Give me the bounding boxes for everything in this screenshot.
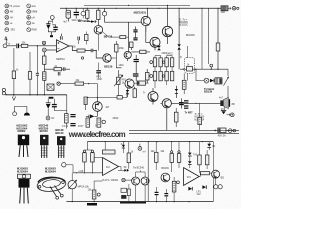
wire [62, 68, 71, 70]
input level arrow [6, 39, 7, 43]
diode D9 [124, 169, 126, 172]
svg-text:0R22: 0R22 [167, 53, 173, 56]
svg-text:TL071 / LM301: TL071 / LM301 [102, 179, 119, 182]
capacitor C15 [70, 123, 75, 124]
resistor R46 [198, 155, 202, 165]
package P4 legs [20, 188, 29, 204]
legend triangle symbol [5, 37, 7, 40]
node circle E [57, 82, 60, 85]
wires pair [136, 170, 146, 201]
zener Z4 [188, 153, 192, 156]
legend symbol circle 4 [5, 21, 9, 25]
wire [146, 26, 155, 51]
bottom rail heavy segment [87, 203, 97, 206]
wire [46, 49, 56, 51]
output inductor L1 [221, 6, 228, 11]
wire opamp3 out [199, 173, 212, 176]
test point [210, 64, 213, 67]
cap C17 [155, 192, 159, 193]
svg-text:uH: uH [32, 16, 35, 19]
package P4 TO-220 tab [18, 174, 31, 178]
trimmer RV2 [187, 67, 193, 72]
svg-text:4n7: 4n7 [219, 97, 224, 100]
ground pad [50, 35, 53, 37]
svg-text:7V5: 7V5 [193, 153, 198, 156]
resistor R22 [170, 71, 173, 81]
resistor R5 [86, 10, 89, 18]
svg-text:BC546: BC546 [40, 129, 49, 133]
svg-text:0 1=1: 0 1=1 [62, 125, 69, 128]
LEGEND [5, 4, 38, 39]
legend symbol circle 10 [27, 28, 31, 32]
node dots [13, 94, 14, 95]
package P5 pins [50, 186, 61, 197]
misc tiny labels [63, 20, 173, 172]
package P4 body [19, 179, 30, 188]
wire [96, 98, 98, 117]
capacitor C3 [91, 49, 93, 52]
resistor R26 [43, 72, 46, 81]
resistor R5b [85, 34, 88, 40]
phone terminal [13, 112, 17, 116]
svg-text:Tr 4R7: Tr 4R7 [185, 110, 193, 114]
output node wire [171, 102, 220, 104]
resistor R6 [97, 10, 100, 19]
transistor Q8 [162, 99, 171, 108]
legend symbol circle 1 [5, 4, 9, 8]
lamp circles [214, 185, 218, 189]
capacitor C5z [53, 27, 57, 28]
resistor R3 [77, 49, 85, 52]
op-amp output wire [69, 46, 77, 51]
fuse F1 [214, 130, 216, 132]
zener terminal circle [50, 16, 54, 20]
terminal (+)45V [230, 113, 234, 117]
resistor R16 [159, 58, 162, 67]
center vertical [147, 142, 149, 202]
node circle C [46, 116, 50, 120]
earpiece [24, 113, 30, 116]
bridge box [47, 84, 54, 90]
resistor R19 [153, 71, 156, 81]
wire [227, 69, 229, 101]
svg-text:IC3: IC3 [187, 176, 191, 179]
svg-text:10R: 10R [221, 11, 226, 14]
resistor R12 [115, 44, 118, 52]
capacitor C13 [52, 104, 57, 105]
op-amp IC2 [103, 158, 119, 176]
resistor R32h [75, 82, 84, 85]
resistor R25 [28, 72, 31, 80]
node circle F [81, 57, 83, 59]
PACKAGES [17, 124, 67, 204]
svg-text:ref: ref [143, 150, 146, 153]
bottom rail thick segment 2 [120, 201, 146, 203]
svg-text:IC2: IC2 [106, 166, 110, 169]
ic2 out wire [119, 167, 122, 171]
INPUT ROW [3, 16, 103, 71]
resistor R40 [83, 153, 87, 162]
resistor R44 [170, 154, 174, 163]
wire y97.5 [86, 97, 117, 99]
capacitor C12 [36, 73, 39, 75]
resistor R2 [43, 56, 47, 64]
capacitor C7 [75, 8, 77, 12]
wire [148, 88, 167, 130]
transistor Q13 [212, 170, 220, 178]
ground symbol [12, 97, 15, 101]
wires zener cluster [48, 21, 55, 35]
transistor Q5 [124, 51, 131, 58]
resistor R24 [12, 71, 15, 79]
resistor R11h [140, 50, 146, 53]
trimmer RV1 [117, 77, 121, 84]
op-amp IC3 [184, 168, 200, 186]
divider line 1 [129, 129, 239, 131]
svg-text:10k: 10k [88, 188, 93, 191]
package P5 mounting holes [38, 186, 41, 189]
terminal (-)45V [227, 129, 228, 131]
node circle X1 [138, 147, 142, 151]
diode D11 [207, 144, 211, 147]
wire [85, 51, 103, 59]
svg-text:R: R [180, 56, 182, 59]
wire [167, 5, 169, 44]
svg-text:BD139: BD139 [204, 89, 213, 93]
terminal 0V a [2, 88, 5, 91]
svg-text:NE5534: NE5534 [56, 58, 65, 61]
svg-text:BD249C: BD249C [186, 34, 195, 37]
capacitor C8b [133, 37, 137, 38]
svg-text:SF: SF [124, 166, 128, 169]
wire vertical B [208, 8, 210, 64]
package P3 body [57, 136, 66, 145]
bias row wire [180, 68, 228, 70]
legend symbol circle 8 [27, 15, 31, 19]
wires [84, 162, 92, 173]
node [37, 45, 38, 46]
terminal circle [62, 163, 66, 167]
wire [84, 84, 98, 98]
transistor Q12 [161, 173, 170, 182]
capacitor C8 [133, 29, 137, 30]
pot RV3 [68, 181, 76, 189]
LOWER SECTION [62, 141, 225, 206]
package P2 TO-126 body [40, 135, 49, 145]
resistor R41 [91, 153, 95, 162]
svg-text:R R7: R R7 [78, 125, 84, 128]
resistor R10 [130, 42, 133, 48]
meter circle [102, 12, 106, 16]
wire [60, 83, 75, 85]
package P1 TO-220 body [18, 135, 29, 146]
wire [103, 32, 129, 37]
box small [121, 188, 127, 192]
transistor Q9 [93, 102, 103, 112]
wire [7, 45, 16, 47]
right vertical [213, 142, 215, 202]
relay box [137, 81, 145, 85]
resistor R31 [97, 118, 101, 127]
resistor R33 [182, 80, 186, 89]
MID LEFT [2, 46, 127, 129]
resistor R8 [216, 43, 220, 51]
speaker LS1 [220, 100, 223, 106]
diode D10 [127, 169, 129, 172]
electrolytic C6 can [65, 8, 67, 10]
svg-text:MJ15004: MJ15004 [17, 169, 28, 173]
cap C18 [164, 193, 168, 194]
legend symbol circle 2 [5, 10, 9, 14]
resistor R47 [205, 155, 209, 165]
capacitor C9b [96, 70, 101, 71]
svg-text:100K: 100K [97, 78, 103, 81]
svg-text:wire: wire [32, 5, 37, 8]
svg-text:10k: 10k [72, 46, 77, 49]
svg-text:BD: BD [221, 176, 225, 179]
diode D12 [188, 187, 192, 191]
svg-text:www.elecfree.com: www.elecfree.com [68, 130, 126, 139]
svg-text:4k7: 4k7 [105, 106, 110, 109]
bottom rail [66, 201, 213, 203]
diode D7 [210, 79, 214, 83]
zener Z1 [177, 44, 180, 47]
resistor R20 [159, 71, 162, 81]
svg-text:45V 3A: 45V 3A [218, 135, 226, 138]
cap C16 [184, 100, 188, 101]
left sense wire [73, 172, 103, 174]
resistor R28h [117, 96, 122, 99]
thermal trim dashed box [185, 58, 195, 74]
node circle A [42, 41, 45, 44]
diode D13 [202, 185, 206, 189]
op-amp supply capacitor C2v [61, 36, 63, 40]
ground under speaker [224, 107, 226, 111]
diode D5 [46, 102, 51, 104]
resistor R27 [65, 114, 69, 123]
feedback row: wire [44, 68, 54, 70]
resistor R34 [198, 117, 202, 124]
wire base row y22 [105, 18, 129, 52]
svg-text:3R3: 3R3 [10, 29, 15, 32]
MAIN AMP [96, 41, 220, 130]
svg-text:MJ802: MJ802 [18, 129, 26, 133]
transistor Q3 [162, 26, 172, 36]
resistor R14 [145, 73, 149, 81]
0V rail [6, 94, 67, 96]
scan noise overlay [0, 0, 241, 209]
resistor R42 [127, 153, 131, 163]
zener Z3 [157, 46, 161, 48]
svg-text:0R68: 0R68 [32, 11, 38, 14]
transistor Q1 [94, 26, 103, 35]
rail drop left [84, 142, 92, 150]
transistor Q10 [132, 177, 140, 185]
resistor R29 [84, 97, 87, 105]
divider line 2 [129, 132, 239, 134]
zener Z2 [126, 90, 130, 92]
emitter resistor bank: resistor R15 [153, 58, 156, 67]
resistor R30 [86, 118, 90, 127]
svg-text:1w: 1w [32, 22, 35, 25]
svg-text:-W-: -W- [10, 16, 14, 19]
node circle B [42, 48, 46, 52]
svg-text:n/off: n/off [79, 170, 84, 173]
offset network box [102, 150, 115, 154]
svg-text:BD250C: BD250C [179, 24, 188, 27]
transistor Q2 [141, 16, 150, 25]
output terminal (+) [228, 7, 231, 10]
wire [128, 48, 150, 61]
transistor Q6 [125, 79, 134, 88]
legend symbol circle 6 [27, 4, 31, 8]
diode D6 [90, 115, 94, 119]
svg-text:1k: 1k [131, 151, 134, 154]
package P2 legs [42, 145, 47, 158]
resistor R18 [170, 58, 173, 67]
svg-text:Tr: Tr [143, 91, 145, 94]
wire [19, 45, 21, 47]
resistor R7h [120, 36, 126, 39]
terminal 0V b [2, 92, 5, 95]
input wire row y170.3 [118, 169, 124, 171]
legend symbol circle 9 [27, 21, 31, 25]
svg-text:4u7: 4u7 [63, 20, 68, 23]
svg-text:MJE: MJE [119, 47, 124, 50]
svg-text:BD139: BD139 [104, 65, 113, 69]
svg-text:in: in [8, 43, 11, 46]
svg-text:1k: 1k [16, 68, 19, 71]
svg-text:0R22: 0R22 [113, 117, 119, 120]
svg-text:100n: 100n [119, 64, 125, 67]
resistor R21 [165, 71, 168, 81]
svg-text:BD140: BD140 [55, 131, 64, 135]
legend symbol circle 5 [5, 28, 9, 32]
transistor Q7 [148, 92, 158, 102]
package P1 legs [19, 145, 28, 157]
WATERMARK [68, 130, 126, 139]
transistor Q11 [141, 177, 149, 185]
zener D8 [122, 145, 125, 148]
svg-text:12V: 12V [196, 193, 201, 196]
svg-text:MJE15031: MJE15031 [134, 10, 147, 14]
IC2 + input network: resistor R50 [92, 190, 96, 199]
wire [129, 8, 148, 37]
capacitor C14 [70, 114, 75, 115]
rail +V upper [84, 4, 190, 6]
resistor R45 [177, 154, 181, 163]
package P3 legs [59, 145, 64, 158]
bank top ties [155, 56, 172, 89]
capacitor C11 [179, 102, 184, 103]
diode D4 [175, 89, 179, 91]
wire [178, 8, 180, 69]
wires [48, 95, 67, 116]
rail +V main [60, 7, 221, 9]
svg-text:1N: 1N [51, 117, 54, 120]
node circle X2 [122, 178, 125, 181]
wire vertical A [201, 8, 203, 69]
svg-text:SET BIAS: SET BIAS [78, 19, 90, 23]
top rail [87, 141, 213, 143]
TOP RAILS [60, 5, 239, 69]
transistor Q4 [150, 37, 160, 47]
resistor R1 [21, 44, 28, 47]
svg-text:8R: 8R [232, 103, 235, 106]
wire [135, 55, 137, 81]
capacitor C4c [58, 72, 60, 76]
svg-text:BD139: BD139 [161, 167, 169, 170]
capacitor C1 [16, 44, 18, 49]
wire [97, 34, 99, 50]
zener D1 [46, 23, 50, 25]
svg-text:HI, power: HI, power [10, 5, 20, 8]
svg-text:BDY56: BDY56 [104, 35, 113, 39]
bank node circles [150, 61, 153, 64]
capacitor C10 [133, 73, 139, 74]
switch arm [224, 77, 229, 86]
node dots on rail [66, 8, 67, 9]
svg-text:Tw BC546: Tw BC546 [133, 167, 145, 170]
svg-text:1N: 1N [212, 145, 215, 148]
svg-text:4W: 4W [10, 11, 14, 14]
dark pad [49, 97, 54, 99]
resistor R49h [201, 171, 210, 174]
legend symbol circle 7 [27, 10, 31, 14]
op-amp U1 [56, 40, 69, 52]
svg-text:MJ15004: MJ15004 [45, 169, 56, 173]
capacitor C3b [78, 37, 80, 41]
svg-text:1k: 1k [122, 81, 125, 84]
diode D2 [87, 21, 91, 23]
lamp circle [204, 78, 209, 83]
long vertical wire [186, 46, 188, 81]
resistor R23 [174, 112, 178, 122]
zener Z5 [188, 161, 192, 164]
svg-text:-w-: -w- [10, 22, 14, 25]
resistor R51 [127, 189, 130, 196]
transistor Q3b [103, 54, 111, 62]
relay K1 [215, 78, 222, 84]
svg-text:R5W: R5W [32, 29, 38, 32]
legend symbol circle 3 [5, 15, 9, 19]
resistor R17 [165, 58, 168, 67]
resistor R4 [54, 68, 62, 71]
OUTPUT RIGHT [129, 46, 239, 138]
package P5 TO-3 can [36, 176, 66, 193]
protect row wire [196, 69, 204, 80]
wire to op-amp [28, 45, 56, 47]
svg-text:10k: 10k [160, 150, 165, 153]
resistor R13 [133, 89, 137, 98]
capacitor C9 [134, 59, 139, 60]
capacitor C4f [63, 67, 65, 71]
resistor R48 [172, 181, 176, 192]
node circle D [102, 120, 105, 123]
input terminal J1 [3, 44, 7, 48]
resistor R43 [155, 152, 159, 162]
trimmer circle [81, 11, 85, 15]
